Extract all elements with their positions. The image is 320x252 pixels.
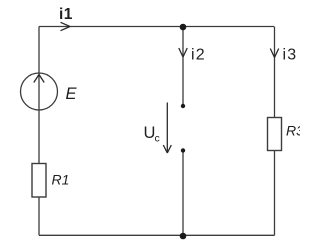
current arrow i2 (on middle wire, points down) — [179, 48, 187, 57]
wire left vertical — [38, 27, 40, 236]
svg-text:i1: i1 — [59, 6, 73, 23]
svg-text:E: E — [66, 85, 78, 103]
svg-text:R1: R1 — [52, 172, 70, 188]
resistor R1 — [32, 164, 46, 198]
wire top horizontal — [39, 26, 274, 28]
node junction dot top — [180, 24, 187, 31]
wire middle branch upper — [182, 27, 184, 105]
wire bottom horizontal — [39, 234, 275, 236]
svg-text:c: c — [155, 133, 160, 145]
svg-text:i3: i3 — [283, 47, 298, 64]
wire right vertical lower — [274, 151, 276, 236]
capacitor top terminal dot — [181, 104, 185, 108]
capacitor bottom terminal dot — [181, 148, 185, 152]
svg-text:R3: R3 — [286, 123, 300, 139]
node junction dot bottom — [180, 233, 187, 240]
voltage source E arrow (points up) — [34, 75, 44, 83]
current arrow i3 (on right wire, points down) — [270, 49, 278, 58]
voltage source E (circle) — [21, 73, 58, 110]
wire middle branch lower — [182, 152, 184, 236]
voltage arrow Uc — [163, 103, 171, 154]
current arrow i1 (on top wire, points right) — [61, 22, 71, 30]
wire right vertical upper — [274, 27, 276, 118]
resistor R3 — [268, 118, 282, 151]
svg-text:i2: i2 — [191, 47, 206, 64]
